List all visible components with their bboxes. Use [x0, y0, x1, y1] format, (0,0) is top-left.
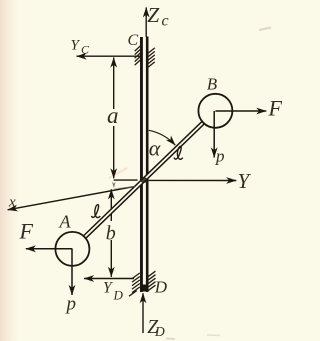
svg-text:F: F	[268, 96, 283, 121]
svg-text:C: C	[81, 43, 90, 57]
svg-text:p: p	[215, 147, 225, 166]
svg-text:a: a	[107, 103, 119, 128]
svg-text:α: α	[149, 135, 161, 160]
svg-text:C: C	[128, 32, 139, 49]
svg-text:A: A	[59, 212, 72, 232]
svg-text:b: b	[106, 223, 116, 245]
svg-text:D: D	[154, 278, 168, 297]
svg-text:B: B	[207, 75, 218, 94]
svg-text:p: p	[65, 294, 77, 315]
svg-text:Y: Y	[103, 280, 113, 297]
svg-text:x: x	[8, 195, 16, 211]
svg-text:Z: Z	[147, 3, 160, 27]
svg-text:D: D	[113, 288, 124, 303]
svg-text:D: D	[154, 324, 165, 339]
svg-text:c: c	[162, 13, 169, 30]
svg-text:F: F	[19, 219, 34, 244]
